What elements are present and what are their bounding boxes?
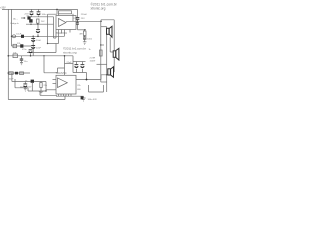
capacitor C14 bootstrap xyxy=(76,9,80,21)
svg-text:100n 63V: 100n 63V xyxy=(88,99,98,101)
wire sp1 left stub xyxy=(101,26,107,28)
capacitor C4 xyxy=(29,19,32,22)
capacitor C1 xyxy=(30,9,34,16)
svg-text:xtronic.org: xtronic.org xyxy=(91,7,106,11)
pin stub U2 left c xyxy=(46,89,56,91)
svg-text:10uF: 10uF xyxy=(9,78,15,80)
wire rail step xyxy=(48,9,58,16)
wire sp2 bottom xyxy=(113,58,116,73)
resistor R1 xyxy=(37,19,39,23)
wire input arrow xyxy=(21,17,25,19)
pin wire U1 p1 xyxy=(58,30,60,44)
svg-text:22u: 22u xyxy=(73,18,76,20)
ground under R9 xyxy=(39,91,43,94)
wire U1 output xyxy=(66,20,101,22)
resistor R6 bridge xyxy=(100,50,103,56)
speaker SP3 xyxy=(108,67,114,77)
node junction R1 on rail xyxy=(37,24,38,25)
wire negative rail xyxy=(26,23,54,25)
pin wire U1 p2 xyxy=(61,30,63,34)
node junction cap stack row1 xyxy=(32,36,34,38)
pin wire U1 p3 xyxy=(64,30,66,37)
wire lower link row xyxy=(12,73,46,82)
ground under C11 xyxy=(20,63,23,65)
wire sp3 left stub xyxy=(107,71,108,73)
wire c19 drop xyxy=(31,83,33,91)
pin wire U2 bottom pins xyxy=(59,94,72,97)
wire -Vs pin feed xyxy=(54,17,57,38)
node junction zobel xyxy=(84,29,85,30)
op-amp U1 triangle xyxy=(59,19,67,27)
wire bottom row link xyxy=(15,79,46,91)
wire sp1 right down xyxy=(110,37,113,52)
wire pin2 link xyxy=(48,43,59,45)
resistor R7 xyxy=(9,72,13,75)
resistor R9 xyxy=(40,82,42,92)
wire mute rail top xyxy=(73,61,86,63)
op-amp U2 TDA7294 body xyxy=(56,75,76,94)
capacitor C16 xyxy=(81,96,84,99)
wire out2 up link xyxy=(101,75,107,80)
pin wire U1 p4 xyxy=(69,30,71,33)
diode D1 xyxy=(36,24,40,36)
svg-text:25V: 25V xyxy=(81,18,85,20)
node junction out2 bus xyxy=(106,74,107,75)
speaker SP1 xyxy=(107,26,113,37)
wire cap stack vertical xyxy=(32,36,34,56)
svg-text:100n: 100n xyxy=(87,39,93,41)
node junction Z row xyxy=(43,55,44,56)
wire U2 pin bus xyxy=(56,95,84,97)
node junction gnd feed xyxy=(47,43,48,44)
wire second left vertical xyxy=(11,9,13,46)
capacitor C6 xyxy=(21,35,24,38)
wire bridge tap stub xyxy=(101,44,104,46)
wire bottom ground bus xyxy=(8,99,65,101)
node junction U2 out xyxy=(86,79,88,81)
capacitor C12 mute xyxy=(75,62,79,73)
wire feedback drop ch2 xyxy=(64,56,66,76)
svg-text:1A →: 1A → xyxy=(13,17,18,20)
capacitor C15 zobel xyxy=(83,36,86,42)
wire out1 to right xyxy=(101,20,114,22)
wire input row 2 xyxy=(12,45,32,47)
capacitor C20 snubber xyxy=(76,21,79,30)
capacitor C9 electrolytic xyxy=(31,45,35,48)
svg-text:100n: 100n xyxy=(42,14,48,16)
wire right mid tick xyxy=(97,63,107,65)
svg-text:2x 8R: 2x 8R xyxy=(90,58,96,60)
ground under C18 xyxy=(24,88,27,91)
wire row corner down xyxy=(72,56,74,73)
svg-text:22k: 22k xyxy=(77,85,80,87)
wire U2 left feed Z path xyxy=(44,56,65,73)
node junction C10 row xyxy=(30,55,32,57)
ground main xyxy=(81,96,85,101)
svg-text:Bridge In: Bridge In xyxy=(11,22,20,25)
op-amp U1 TDA7294 body xyxy=(56,16,76,30)
wire lower feed vertical xyxy=(45,82,47,92)
node junction output bootstrap xyxy=(77,21,79,23)
capacitor C7 xyxy=(20,44,23,47)
svg-text:22uF: 22uF xyxy=(36,47,42,49)
wire long row xyxy=(8,55,73,57)
node junction on +35V rail xyxy=(56,9,58,11)
resistor R3 xyxy=(13,54,18,58)
node junction bridge tap xyxy=(100,44,101,45)
wire left bus vertical xyxy=(7,9,9,99)
pin stub U2 left a xyxy=(53,79,57,81)
capacitor C11 below row xyxy=(20,56,23,63)
wire zobel branch xyxy=(78,29,87,31)
node junction C4 on rail xyxy=(30,24,31,25)
wire U2 output xyxy=(76,79,101,81)
wire gnd feed vertical xyxy=(47,17,49,44)
wire input row 1 xyxy=(12,35,65,37)
capacitor C3 input coupling xyxy=(27,16,30,19)
wire sp2 top feed xyxy=(113,20,115,51)
wire zero-volt rail xyxy=(28,16,54,18)
node junction left bus row xyxy=(8,55,10,57)
node junction stby out xyxy=(86,79,88,81)
wire positive rail xyxy=(2,8,78,10)
svg-text:22uF: 22uF xyxy=(36,40,42,42)
node junction D1 row1 xyxy=(37,36,39,38)
node junction row1 xyxy=(11,36,12,37)
resistor R5 zobel xyxy=(83,30,86,36)
ground zobel xyxy=(83,42,87,45)
wire mid row xyxy=(27,44,56,53)
wire mute rail bottom xyxy=(73,73,87,80)
capacitor C19 xyxy=(31,80,34,83)
wire fb right leg xyxy=(72,14,74,21)
node junction row3 xyxy=(8,72,10,74)
wire fb left leg xyxy=(58,14,60,16)
resistor R8 xyxy=(20,72,24,75)
capacitor C18 electrolytic xyxy=(23,82,27,89)
wire bottom left loop xyxy=(40,91,65,100)
capacitor C17 xyxy=(15,72,18,75)
wire link row to drop xyxy=(65,63,74,65)
node junction bottom xyxy=(45,90,46,91)
svg-text:100W: 100W xyxy=(90,61,97,63)
wire row3 components xyxy=(8,72,30,74)
wire out1 down bus xyxy=(100,21,102,82)
capacitor C10 electrolytic on row xyxy=(29,49,33,55)
speaker SP2 xyxy=(113,48,119,60)
node output 1 junction xyxy=(100,21,102,23)
svg-text:470n: 470n xyxy=(22,49,26,51)
capacitor C5 electrolytic outline xyxy=(12,35,15,38)
node junction row x64 xyxy=(64,55,66,57)
svg-text:22uF: 22uF xyxy=(67,62,73,64)
capacitor C8 electrolytic xyxy=(31,38,35,41)
capacitor C2 xyxy=(37,9,41,16)
resistor R2 xyxy=(13,44,17,47)
capacitor C13 stby xyxy=(81,62,85,73)
svg-text:220uF: 220uF xyxy=(81,14,88,16)
resistor R4 feedback ch1 xyxy=(59,11,72,14)
wire sp1 left vertical xyxy=(106,27,108,92)
op-amp U2 triangle xyxy=(58,78,68,88)
svg-text:1k: 1k xyxy=(89,49,91,51)
svg-text:xtronic.org: xtronic.org xyxy=(63,51,77,55)
pin stub U2 left b xyxy=(53,83,57,85)
wire bridge bottom link xyxy=(101,81,107,83)
wire out2 lower loop xyxy=(89,85,104,92)
